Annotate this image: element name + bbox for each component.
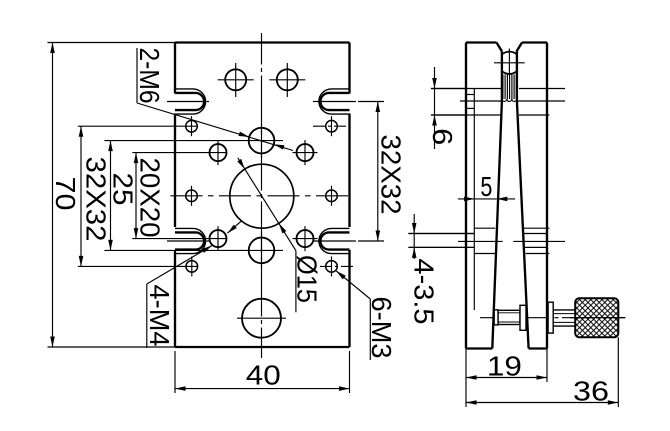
front view horizontal centerline — [171, 195, 354, 197]
side lower slot inner lines — [408, 233, 474, 235]
hole M3 mid-left — [186, 190, 198, 202]
dim 6 arrows — [434, 67, 436, 89]
screw collar — [520, 305, 526, 330]
dim 40 line — [175, 388, 350, 390]
front view vertical centerline — [261, 33, 263, 358]
ball — [502, 52, 517, 55]
dim 32X32R line — [377, 102, 379, 242]
dim 25 line — [110, 141, 112, 251]
leader 4-M4 — [146, 284, 148, 348]
fine shaft — [553, 309, 575, 311]
hole M3 top-left — [186, 120, 198, 132]
svg-text:32X32: 32X32 — [80, 157, 111, 242]
spring — [502, 75, 504, 100]
dim 36 ext lines — [465, 382, 467, 407]
leader 2-M6 — [136, 48, 138, 103]
svg-text:6-M3: 6-M3 — [366, 297, 397, 359]
side view bottom edges — [466, 347, 492, 349]
hole M4 top-left — [210, 144, 227, 161]
hole M6 lower — [249, 238, 275, 264]
svg-text:36: 36 — [573, 375, 609, 406]
hole M6 upper (2-M6) — [249, 128, 275, 154]
svg-text:4-M4: 4-M4 — [144, 285, 175, 347]
dim 40 ext lines — [174, 351, 176, 393]
dim 32X32L line — [80, 126, 82, 266]
slot upper-right centerline (ext for 32X32) — [313, 101, 384, 103]
side top slot outer lines — [431, 88, 501, 90]
side top slot inner lines — [466, 94, 474, 96]
top mounting hole right — [277, 69, 298, 90]
screw shaft — [498, 310, 520, 324]
svg-text:40: 40 — [246, 359, 281, 390]
dim 4-3.5 ext lines — [408, 233, 474, 235]
dim 32X32L ext lines — [78, 125, 198, 127]
slot upper-left centerline — [167, 101, 211, 103]
side lower slot outer lines — [474, 227, 495, 229]
slot lower-left centerline — [167, 240, 211, 242]
screw tip — [494, 310, 498, 325]
leader Ø15 diameter line — [238, 158, 296, 251]
screw centerline — [480, 317, 625, 319]
svg-text:20X20: 20X20 — [134, 158, 165, 238]
slot upper-right — [320, 93, 349, 110]
svg-text:5: 5 — [480, 171, 492, 202]
side top slot centerline — [460, 100, 501, 102]
dim 70 line — [52, 43, 54, 348]
front plate outline — [175, 41, 350, 43]
hole M4 bottom-right — [297, 230, 314, 247]
side view top edges — [466, 41, 497, 43]
leader 6-M3 — [369, 299, 371, 360]
hole M4 top-right — [297, 144, 314, 161]
dim 19 ext lines — [465, 349, 467, 383]
dim 6 ext lines — [431, 88, 466, 90]
side lower slot centerline — [458, 240, 503, 242]
svg-text:6: 6 — [427, 128, 458, 145]
hole M4 bottom-left — [210, 230, 227, 247]
svg-text:4-3.5: 4-3.5 — [408, 259, 439, 325]
dim 70 ext lines — [48, 42, 176, 44]
side view left plate left edge — [465, 43, 467, 349]
slot lower-right centerline (ext for 32X32) — [313, 240, 384, 242]
bottom hole — [242, 299, 281, 338]
side view right plate right edge — [546, 43, 548, 349]
side view gap left edge — [492, 52, 502, 349]
leader arrow circle-to-M4 — [227, 221, 241, 233]
hole M3 bottom-left — [186, 261, 198, 273]
hole M3 mid-right — [326, 190, 338, 202]
dim 36 line — [466, 402, 618, 404]
slot lower-left — [175, 232, 204, 249]
svg-text:32X32: 32X32 — [375, 135, 406, 215]
side view step line — [473, 88, 475, 310]
svg-text:70: 70 — [50, 177, 81, 211]
side view v-notch — [497, 43, 503, 52]
svg-text:25: 25 — [107, 173, 138, 206]
hole M3 bottom-right — [326, 261, 338, 273]
center hole Ø15 — [230, 164, 294, 228]
dim 19 line — [466, 377, 547, 379]
screw flange — [548, 302, 553, 333]
svg-text:19: 19 — [487, 351, 522, 382]
slot upper-left — [175, 93, 204, 110]
hole M3 top-right — [326, 120, 338, 132]
slot lower-right — [320, 232, 349, 249]
dim 5 line — [458, 198, 475, 200]
side view gap right edge — [517, 52, 529, 349]
dim 20X20 line — [135, 153, 137, 239]
dim 4-3.5 arrows — [413, 214, 415, 234]
dim 20X20 ext lines — [132, 152, 227, 154]
top mounting hole left — [225, 69, 246, 90]
svg-text:Ø15: Ø15 — [291, 255, 322, 303]
svg-text:2-M6: 2-M6 — [134, 48, 165, 104]
